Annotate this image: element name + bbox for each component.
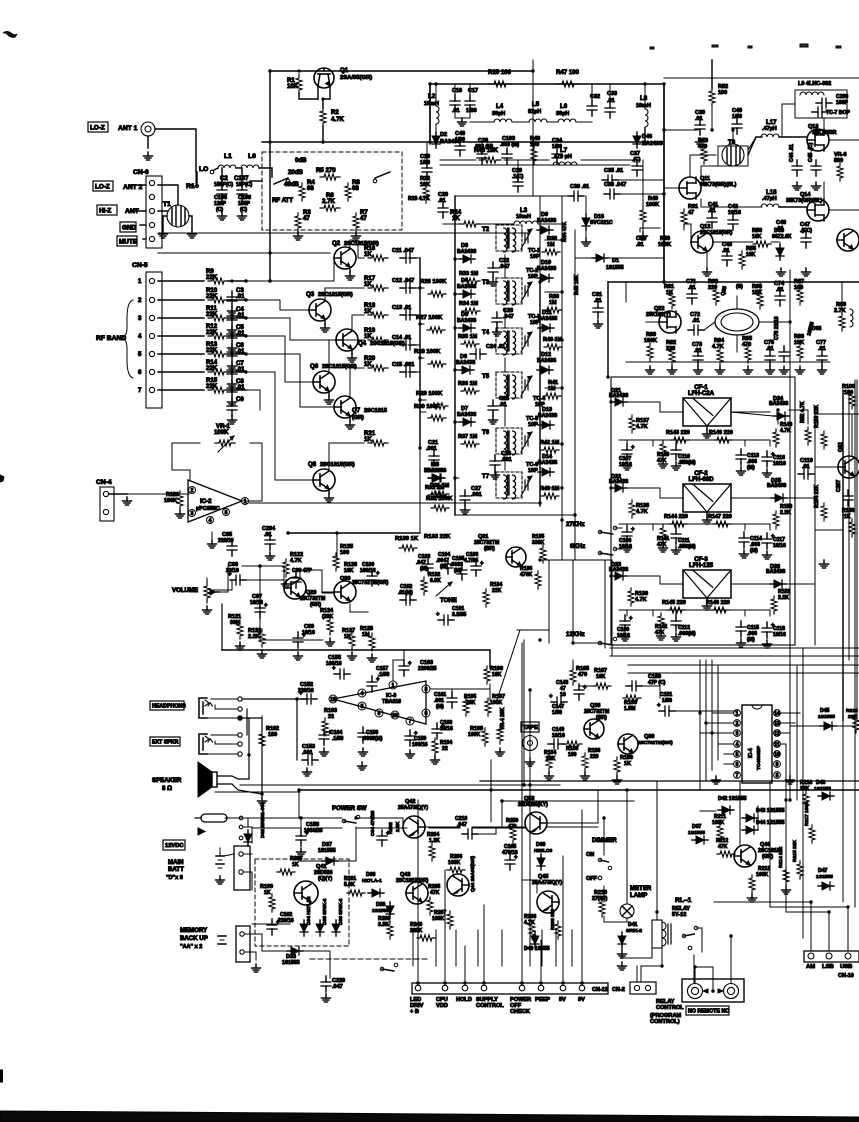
wire CF-1 out bbox=[731, 412, 773, 416]
ground q12e bbox=[703, 268, 712, 276]
transistor Q29 bbox=[284, 577, 306, 599]
capacitor C3 bbox=[227, 291, 237, 307]
label C115 v4 bbox=[747, 637, 755, 643]
svg-text:8: 8 bbox=[425, 687, 428, 693]
svg-text:2SC1815(GR): 2SC1815(GR) bbox=[318, 292, 353, 298]
label Q31 bbox=[478, 534, 488, 540]
lamp X bbox=[622, 906, 632, 916]
svg-text:BA243S: BA243S bbox=[538, 460, 558, 466]
label C149 bbox=[552, 727, 564, 733]
wire c96 to q29 bbox=[244, 580, 284, 588]
junction d62 bbox=[418, 446, 421, 449]
label C8 bbox=[236, 378, 244, 385]
connector CN-2 bbox=[630, 982, 656, 994]
svg-text:10K: 10K bbox=[287, 83, 299, 90]
label C193 bbox=[502, 136, 515, 142]
label 10Kh bbox=[596, 674, 606, 680]
label C204 bbox=[262, 526, 276, 532]
label R145 220 bbox=[662, 600, 686, 606]
wire q42 chain bbox=[425, 826, 459, 828]
label 100f bbox=[340, 550, 349, 556]
wire trim bus 444 bbox=[545, 443, 562, 445]
transistor Q39 bbox=[618, 734, 638, 754]
label C101 bbox=[452, 606, 464, 612]
label .01o bbox=[766, 346, 774, 352]
resistor R190 bbox=[623, 695, 641, 701]
resistor R206 bbox=[447, 867, 465, 873]
label C43 bbox=[722, 242, 732, 248]
wire T chain 308 bbox=[504, 308, 506, 328]
svg-text:T7: T7 bbox=[482, 473, 490, 480]
svg-text:TC-7 BOP: TC-7 BOP bbox=[826, 110, 850, 116]
label POWER SW bbox=[332, 805, 367, 812]
svg-text:100K: 100K bbox=[644, 338, 657, 344]
resistor R150 bbox=[773, 511, 779, 529]
label R49 bbox=[648, 196, 658, 202]
label 10Kf bbox=[344, 568, 354, 574]
wire 533 vert bbox=[532, 71, 534, 144]
label TC-3 bbox=[528, 314, 540, 320]
wire cf stub 440 627 bbox=[626, 440, 628, 446]
label D4 t bbox=[457, 284, 477, 290]
label 6.8K bbox=[430, 578, 441, 584]
label 220K bbox=[410, 928, 423, 934]
wire cf stub 440 653 bbox=[652, 440, 654, 446]
jack hp contact2 bbox=[238, 707, 242, 711]
svg-text:.01: .01 bbox=[438, 198, 446, 204]
svg-text:T3: T3 bbox=[482, 279, 490, 286]
svg-text:R47 100: R47 100 bbox=[556, 69, 580, 76]
capacitor C115 bbox=[736, 621, 746, 637]
wire Q8 c bbox=[329, 443, 364, 471]
label D26 t2 bbox=[766, 569, 786, 575]
svg-text:10K: 10K bbox=[596, 674, 606, 680]
label C197 bbox=[234, 175, 249, 182]
wire c1x to bus 258 bbox=[408, 257, 420, 259]
capacitor C97 bbox=[255, 602, 268, 618]
label C6 bbox=[236, 342, 244, 349]
capacitor C96 bbox=[228, 572, 246, 585]
wire q25 right bbox=[759, 321, 790, 323]
wire diag tone bbox=[497, 630, 520, 700]
label R137 4.7K bbox=[636, 418, 649, 424]
label D23 bbox=[611, 562, 621, 568]
wire v803 bbox=[802, 648, 804, 938]
capacitor C7 bbox=[227, 364, 237, 380]
label 100e bbox=[844, 390, 853, 396]
wire r192 top bbox=[242, 718, 262, 731]
capacitor C159 bbox=[405, 730, 418, 746]
svg-text:R36 1M: R36 1M bbox=[458, 381, 478, 387]
diode D5 BA243S bbox=[459, 324, 475, 332]
svg-text:5: 5 bbox=[361, 704, 364, 710]
label D3 bbox=[461, 243, 468, 249]
svg-text:MUTE: MUTE bbox=[119, 238, 137, 245]
wire top loop bbox=[269, 144, 271, 281]
svg-text:C45 .(C): C45 .(C) bbox=[808, 142, 814, 162]
resistor R20 bbox=[368, 365, 388, 371]
wire cn6 pin2 bbox=[130, 184, 146, 186]
label 1/50a bbox=[420, 160, 430, 166]
svg-text:39µH: 39µH bbox=[556, 111, 569, 117]
diode D60 bbox=[537, 854, 545, 870]
label 39K bbox=[230, 620, 240, 626]
wire mem row bbox=[245, 934, 287, 951]
wire base Q3 bbox=[246, 300, 309, 310]
label 100Kf bbox=[432, 916, 445, 922]
resistor R3 bbox=[295, 213, 301, 231]
label R186b bbox=[566, 746, 578, 752]
svg-text:10/16: 10/16 bbox=[552, 733, 565, 739]
svg-text:47: 47 bbox=[360, 215, 367, 222]
ground R120 bbox=[176, 510, 185, 518]
label C28 bbox=[478, 138, 488, 144]
wire CN-12 drop 478 bbox=[477, 930, 479, 966]
svg-text:25A473IQ(Y): 25A473IQ(Y) bbox=[398, 805, 428, 811]
wire R1 node up bbox=[196, 172, 198, 186]
transistor Q45 bbox=[537, 891, 559, 913]
wire cf1 d24 out bbox=[789, 410, 808, 424]
junction d64 bbox=[335, 531, 338, 534]
junction d41 bbox=[788, 320, 791, 323]
wire cn10 stair3 bbox=[770, 906, 848, 908]
label 4.7/35 bbox=[464, 558, 478, 564]
transistor Q30 bbox=[334, 581, 356, 603]
label R27 100K bbox=[416, 315, 443, 321]
label 27KHz bbox=[566, 521, 585, 528]
svg-text:0dB: 0dB bbox=[295, 157, 307, 164]
transistor Q12 bbox=[691, 231, 713, 253]
label SY-12 bbox=[672, 912, 686, 918]
wire r46-l7 bbox=[504, 159, 549, 161]
wire c2 tops bbox=[221, 168, 223, 186]
svg-text:.47µH: .47µH bbox=[762, 126, 777, 132]
label R218 22K bbox=[846, 708, 858, 714]
wire spk lead2 bbox=[217, 784, 262, 794]
label R147 220 bbox=[708, 514, 732, 520]
wire trim bus 340 bbox=[545, 339, 562, 341]
wire pin2 to T1 bbox=[158, 185, 178, 205]
pin IC-4-7 bbox=[734, 772, 741, 779]
wire ic4 pin4 wire bbox=[718, 743, 733, 745]
wire CF-2 d1 to box2 bbox=[627, 488, 683, 498]
svg-text:R43 1M: R43 1M bbox=[540, 486, 560, 492]
wire q45 links bbox=[522, 880, 537, 893]
resistor R121 bbox=[237, 621, 243, 639]
wire CN-12 drop 572 bbox=[571, 930, 573, 966]
label (C) a bbox=[216, 207, 223, 213]
svg-text:C13 .01: C13 .01 bbox=[392, 305, 411, 311]
wire IF bus B bbox=[574, 230, 576, 520]
label Q6 type bbox=[322, 364, 357, 370]
label 2SC1815g bbox=[758, 848, 779, 854]
switch 12KHz bbox=[598, 637, 617, 645]
label BA243Sg bbox=[424, 468, 444, 474]
wire relay coil top bbox=[656, 912, 658, 920]
wire base Q6 bbox=[246, 336, 313, 382]
op-amp IC-3 TBA810 bbox=[333, 681, 426, 724]
label 10/16d bbox=[440, 726, 453, 732]
node R1 bbox=[195, 184, 198, 187]
diode D25 BA243S bbox=[771, 494, 787, 502]
wire notch bus1 bbox=[572, 660, 574, 668]
label HI-Z box bbox=[97, 205, 117, 215]
svg-text:METER: METER bbox=[630, 885, 652, 892]
junction Q1 R2 bbox=[321, 97, 324, 100]
label D33 bbox=[286, 954, 296, 960]
svg-text:LED: LED bbox=[410, 997, 421, 1003]
resistor R144 bbox=[669, 521, 687, 527]
label D2 bbox=[440, 132, 447, 138]
wire trim bus 388 bbox=[545, 387, 562, 389]
label CN-4 bbox=[96, 479, 112, 486]
IC-4 notch bbox=[752, 705, 762, 709]
junction d5 bbox=[643, 82, 646, 85]
label C109 bbox=[617, 627, 629, 633]
resistor R35 1M bbox=[461, 341, 479, 347]
label LFH-125 bbox=[689, 562, 714, 569]
label 120K bbox=[322, 614, 333, 620]
label C34 bbox=[552, 138, 563, 144]
svg-text:Q4: Q4 bbox=[358, 340, 367, 347]
svg-text:100: 100 bbox=[530, 142, 539, 148]
diode D34 bbox=[300, 920, 308, 936]
label D11 t2 bbox=[538, 316, 558, 322]
wire c1x to bus 315 bbox=[408, 314, 420, 316]
svg-text:+: + bbox=[376, 677, 380, 683]
resistor R149 bbox=[773, 429, 779, 447]
svg-text:"D"x 8: "D"x 8 bbox=[166, 875, 183, 881]
jack arrows bbox=[703, 989, 723, 993]
label C12 .047 bbox=[392, 278, 414, 284]
svg-text:4.7K: 4.7K bbox=[636, 509, 648, 515]
svg-text:BA243S: BA243S bbox=[767, 483, 787, 489]
label C148 bbox=[556, 680, 568, 686]
svg-text:4.7K: 4.7K bbox=[331, 116, 344, 123]
label LFH-C2A bbox=[688, 390, 715, 397]
svg-text:10/16: 10/16 bbox=[619, 462, 632, 468]
label SVC321C bbox=[590, 220, 613, 226]
wire c96 to base bbox=[242, 566, 284, 580]
resistor R40 1M bbox=[544, 344, 562, 350]
label 68 bbox=[307, 185, 314, 192]
junction d2 bbox=[428, 82, 431, 85]
label R200b bbox=[290, 856, 302, 862]
svg-text:Q7: Q7 bbox=[352, 407, 361, 414]
svg-text:D60: D60 bbox=[536, 842, 546, 848]
svg-text:R30 100K: R30 100K bbox=[414, 404, 441, 410]
capacitor C10 bbox=[422, 162, 432, 178]
wire ic3 out bottom bbox=[240, 784, 560, 786]
label R216 bbox=[800, 780, 812, 786]
label R140 bbox=[657, 452, 669, 458]
label D23 t bbox=[609, 567, 629, 573]
wire Q4 emitter bbox=[351, 349, 353, 354]
capacitor C106 bbox=[471, 560, 484, 576]
resistor R37 1M bbox=[461, 441, 479, 447]
svg-text:C36 .047: C36 .047 bbox=[604, 182, 626, 188]
svg-text:1K: 1K bbox=[364, 361, 372, 368]
capacitor C103 bbox=[423, 558, 433, 574]
label .047t bbox=[416, 560, 426, 566]
resistor R41 bbox=[543, 393, 561, 399]
wire CN-5 row 7 bbox=[158, 389, 204, 391]
svg-text:L18: L18 bbox=[766, 189, 777, 196]
wire dleft stub 328 bbox=[455, 327, 459, 329]
label R199 bbox=[260, 884, 273, 890]
pin CN-12-8 bbox=[579, 985, 585, 991]
capacitor C158 bbox=[296, 830, 309, 846]
label C103 bbox=[418, 554, 430, 560]
scan mark left-mid bbox=[0, 475, 4, 482]
label C42 bbox=[728, 204, 738, 210]
ground Q2 bbox=[346, 272, 355, 280]
label 10Kg bbox=[492, 672, 502, 678]
switch POWER SW bbox=[342, 815, 360, 823]
jack es contact1 bbox=[238, 733, 242, 737]
label T3 bbox=[482, 279, 490, 286]
svg-text:180: 180 bbox=[268, 732, 277, 738]
label D12 t2 bbox=[537, 358, 557, 364]
wire ic4 pin1 wire bbox=[712, 712, 733, 714]
label R128 bbox=[360, 626, 373, 632]
label T4 bbox=[482, 329, 490, 336]
resistor R136 bbox=[535, 571, 541, 589]
label 12KHz bbox=[566, 631, 585, 638]
label R15 bbox=[206, 377, 218, 384]
label 220e bbox=[590, 754, 599, 760]
svg-text:25D526I(KY): 25D526I(KY) bbox=[518, 802, 548, 808]
junction row 5 bbox=[230, 352, 233, 355]
wire d37 out bbox=[338, 827, 356, 861]
junction d28 bbox=[453, 476, 456, 479]
svg-text:R147 220: R147 220 bbox=[708, 514, 732, 520]
diode D10 BA243S bbox=[537, 274, 553, 282]
svg-text:2.2K: 2.2K bbox=[780, 510, 791, 516]
label R206 bbox=[450, 854, 462, 860]
svg-text:10/16: 10/16 bbox=[250, 600, 263, 606]
svg-text:4: 4 bbox=[736, 742, 739, 748]
junction row 4 bbox=[230, 334, 233, 337]
wire ant1 to right bbox=[155, 129, 196, 172]
wire mid vert 664 bbox=[663, 130, 665, 282]
resistor R215 bbox=[797, 861, 803, 879]
label 10mH2 bbox=[636, 103, 651, 109]
wire v270 bbox=[269, 142, 271, 253]
label 10K v bbox=[287, 83, 299, 90]
wire l4 row bbox=[470, 121, 494, 123]
svg-text:T1: T1 bbox=[163, 201, 171, 208]
label C116 v5 bbox=[773, 461, 786, 467]
wire CN-12 drop 456 bbox=[455, 930, 457, 966]
svg-text:USB: USB bbox=[840, 964, 852, 970]
wire dleft stub 294 bbox=[455, 293, 459, 295]
ground mem bbox=[252, 964, 261, 972]
label D22 t bbox=[609, 479, 629, 485]
wire trim bus 240 bbox=[545, 239, 562, 241]
label D11 bbox=[542, 310, 552, 316]
label T1 bbox=[163, 201, 171, 208]
junction d26 bbox=[453, 368, 456, 371]
label BA243S a bbox=[440, 139, 461, 145]
label C151 bbox=[660, 692, 672, 698]
label C74 bbox=[774, 281, 785, 287]
wire q13 up bbox=[823, 118, 825, 129]
label R123 bbox=[248, 628, 261, 634]
svg-text:10: 10 bbox=[392, 713, 398, 719]
label C72 bbox=[690, 312, 700, 318]
svg-text:100K: 100K bbox=[756, 872, 769, 878]
label 120P bbox=[214, 201, 227, 207]
wire d42 row bbox=[700, 810, 716, 812]
wire 27k out bbox=[615, 527, 622, 529]
svg-text:+: + bbox=[376, 571, 380, 577]
svg-text:2200/25: 2200/25 bbox=[418, 666, 437, 672]
label 470c bbox=[578, 672, 587, 678]
wire IF bus A bbox=[561, 196, 563, 520]
svg-text:25C732TM(GR): 25C732TM(GR) bbox=[352, 580, 389, 586]
label 25A473IQ(KY) bbox=[398, 805, 428, 811]
ground IC-2 4 bbox=[208, 540, 217, 548]
pin IC-2 1 bbox=[242, 498, 249, 506]
wire v540 long bbox=[539, 282, 541, 506]
wire relay feed bbox=[641, 948, 662, 982]
label .01c bbox=[438, 198, 446, 204]
junction d43 bbox=[606, 375, 609, 378]
label C36 .047 bbox=[604, 182, 626, 188]
capacitor C20 bbox=[438, 202, 448, 218]
pin IC-4-11 bbox=[774, 741, 781, 748]
label C76 bbox=[774, 316, 780, 340]
label 2SC1815e bbox=[700, 230, 733, 236]
resistor R4 bbox=[299, 183, 305, 201]
wire caps mid row bbox=[481, 142, 483, 150]
wire LO to L1 bbox=[214, 168, 218, 170]
label .001i bbox=[426, 446, 437, 452]
wire cf1 out bbox=[731, 411, 770, 413]
label 2.7K bbox=[322, 198, 335, 205]
resistor R31 bbox=[431, 491, 449, 497]
wire R1 bottom bbox=[299, 93, 318, 99]
svg-text:10/16: 10/16 bbox=[617, 633, 630, 639]
capacitor C152 bbox=[299, 691, 317, 704]
transistor Q8 bbox=[313, 469, 335, 491]
junction d60 bbox=[560, 518, 563, 521]
junction d8 bbox=[643, 140, 646, 143]
wire q25 bottom bbox=[736, 335, 738, 352]
wire cf stub 610 770 bbox=[769, 610, 771, 616]
pin IC-4-3 bbox=[734, 730, 741, 737]
pin IC-4-12 bbox=[774, 730, 781, 737]
wire mute bus bbox=[158, 232, 530, 234]
wire r52 riser bbox=[711, 60, 713, 88]
svg-text:2SC1815(GR): 2SC1815(GR) bbox=[320, 462, 355, 468]
label 4.7Kc bbox=[290, 558, 302, 564]
junction d69 bbox=[710, 731, 713, 734]
label .01f bbox=[722, 248, 730, 254]
capacitor C148 bbox=[574, 684, 587, 700]
svg-text:47K: 47K bbox=[430, 890, 440, 896]
label LO-Z ANT1 box bbox=[88, 122, 108, 132]
resistor R47 bbox=[557, 81, 579, 87]
resistor R33 1M bbox=[462, 278, 480, 284]
wire osc bus1 bbox=[625, 282, 627, 302]
svg-text:D45: D45 bbox=[820, 708, 830, 714]
svg-text:TONE: TONE bbox=[440, 597, 457, 604]
wire CN-5 row 6 bbox=[158, 371, 204, 373]
svg-text:35K73(GR: 35K73(GR bbox=[812, 130, 837, 136]
wire cf row 610 bbox=[619, 609, 770, 611]
